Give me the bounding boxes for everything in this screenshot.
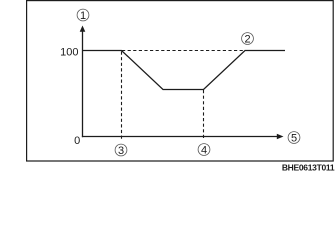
dashed vertical line at point 4 (203, 90, 205, 139)
svg-text:0: 0 (74, 135, 80, 147)
svg-text:5: 5 (291, 133, 297, 145)
x-axis arrowhead (277, 134, 284, 140)
svg-text:1: 1 (80, 10, 86, 22)
x-axis (82, 136, 278, 138)
svg-text:3: 3 (118, 145, 124, 157)
svg-text:100: 100 (60, 47, 78, 59)
svg-text:BHE0613T011: BHE0613T011 (282, 162, 335, 172)
callout circle 3 (115, 144, 127, 156)
svg-text:2: 2 (244, 34, 250, 46)
callout circle 5 (288, 132, 300, 144)
dashed vertical line at point 3 (121, 52, 123, 140)
y-axis (82, 31, 84, 138)
callout circle 2 (242, 33, 254, 45)
svg-text:4: 4 (201, 145, 207, 157)
frame border (27, 1, 334, 161)
callout circle 4 (198, 144, 210, 156)
dashed reference line at 100 level (122, 50, 244, 52)
callout circle 1 (77, 9, 89, 21)
plotted duty curve (83, 51, 286, 90)
y-axis arrowhead (80, 26, 86, 32)
